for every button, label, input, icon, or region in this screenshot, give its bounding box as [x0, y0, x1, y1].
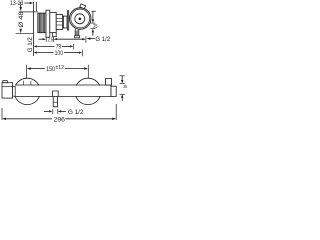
- front view outlet nut: [74, 36, 79, 38]
- dim 25 tick mid1: [90, 22, 95, 24]
- dim 25 text: [93, 24, 97, 30]
- svg-text:±12: ±12: [56, 65, 65, 71]
- label G 1/2 top arrow: [86, 37, 90, 39]
- dim 296 ext line left: [1, 108, 3, 120]
- dim G 1/2 bottom text: [68, 109, 84, 116]
- plan view bar bottom line: [15, 95, 111, 97]
- arrow for 13-23 pointing right: [24, 2, 29, 4]
- extension line second short: [35, 2, 37, 11]
- plan view knob: [2, 83, 13, 98]
- side view nut flat line 3: [56, 24, 62, 26]
- front view rim ring: [71, 9, 90, 28]
- dim G 1/2 bottom bar right: [57, 109, 59, 114]
- dim 79 text: [56, 44, 62, 51]
- svg-text:100: 100: [55, 50, 64, 57]
- front view top tab: [80, 4, 86, 9]
- front view outer circle: [69, 8, 91, 30]
- dim O48 arrow down upper: [20, 7, 22, 11]
- dim 25 right tick top: [120, 75, 125, 77]
- plan view right top knob: [106, 79, 112, 86]
- dim row1 long line: [57, 38, 85, 40]
- dim 25 tick mid2: [90, 28, 95, 30]
- dim 150 ext bar left: [26, 65, 28, 79]
- plan view right escutcheon circle: [75, 78, 101, 104]
- dim 25 top tick upper: [91, 10, 96, 12]
- dim 25 right tick bottom: [120, 93, 125, 95]
- label G 1/2 top text: [95, 36, 110, 43]
- dim 150 text with tolerance: [46, 65, 64, 73]
- dim O48 bottom extension line: [16, 33, 34, 35]
- svg-text:13-23: 13-23: [10, 0, 24, 7]
- plan view outlet junction: [53, 91, 59, 96]
- dim 2.5 bar right: [53, 37, 55, 42]
- dim 79 arrow left: [34, 45, 37, 47]
- side view outlet elbow: [53, 33, 57, 37]
- dim 25 arrow down: [92, 19, 94, 23]
- dim 25 shaft lower: [92, 32, 94, 36]
- plan view outlet stub step: [53, 101, 57, 103]
- svg-text:296: 296: [54, 116, 66, 123]
- plan view end cap: [111, 86, 116, 96]
- dim 79 bar right: [72, 44, 74, 50]
- dim 150 arrow right: [84, 67, 88, 69]
- svg-text:25: 25: [123, 84, 127, 89]
- dim O48 arrow down lower: [20, 29, 22, 33]
- dim 25 right text: [123, 84, 127, 89]
- plan view bar end line: [110, 85, 112, 97]
- svg-text:2.5: 2.5: [48, 37, 53, 43]
- dim 2.5 arrow right: [39, 38, 44, 40]
- plan view bar top line: [15, 84, 111, 86]
- plan view bar mask: [13, 85, 111, 96]
- dim 25 right arrow up: [121, 94, 123, 97]
- dim 25 arrow up: [92, 29, 94, 33]
- front view center dot: [79, 18, 82, 21]
- dim 150 arrow left: [27, 67, 31, 69]
- svg-text:G 1/2: G 1/2: [95, 36, 110, 43]
- dim G 1/2 bottom arrow left: [58, 110, 61, 112]
- dim row1 arrow right: [82, 38, 85, 40]
- dim 100 arrow left: [34, 52, 37, 54]
- side view escutcheon plate: [67, 11, 68, 30]
- plan view outlet stub: [53, 96, 57, 106]
- dim 296 text: [54, 116, 66, 123]
- dim 2.5 text: [48, 37, 53, 43]
- dim label 13-23: [10, 0, 24, 7]
- side view wall collar: [63, 16, 67, 28]
- dim 25 right shaft top: [121, 76, 123, 80]
- extension line left long: [33, 2, 35, 56]
- dim O48 text vertical: [19, 11, 25, 28]
- dim O48 top extension line: [19, 11, 38, 13]
- dim 79 arrow right: [70, 45, 73, 47]
- plan view knob tab: [3, 81, 8, 83]
- plan view knob inner line: [2, 86, 13, 88]
- side view knurled knob: [38, 13, 46, 33]
- side view union nut: [56, 15, 62, 30]
- dim 2.5 arrow left: [54, 38, 57, 40]
- dim 296 ext line right: [115, 104, 117, 120]
- dim G 1/2 bottom bar left: [52, 109, 54, 114]
- dim 100 text: [55, 50, 64, 57]
- dim 150 ext bar right: [87, 65, 89, 78]
- side view handle disc: [46, 10, 50, 37]
- plan view knob neck: [13, 86, 16, 96]
- svg-text:G 1/2: G 1/2: [68, 109, 84, 116]
- dim 2.5 bar left: [45, 37, 47, 42]
- front view outlet below: [75, 29, 79, 36]
- dim 296 arrow left: [2, 118, 6, 120]
- dim 25 right arrow down: [121, 80, 123, 83]
- dim 25 shaft upper: [92, 11, 94, 20]
- label G 1/2 vertical text: [28, 37, 34, 53]
- dim G 1/2 bottom arrow right: [44, 110, 49, 112]
- dim O48 shaft top: [20, 2, 22, 7]
- front view inner circle: [75, 14, 85, 24]
- dim 25 right shaft bottom: [121, 98, 123, 101]
- label G 1/2 top bar: [85, 36, 87, 43]
- side view nut flat line 1: [56, 17, 62, 19]
- dim 100 arrow right: [79, 52, 82, 54]
- dim 100 bar right: [81, 50, 83, 57]
- dim 296 arrow right: [112, 118, 116, 120]
- svg-text:G 1/2: G 1/2: [28, 37, 34, 53]
- svg-text:150: 150: [46, 66, 55, 73]
- plan view left escutcheon circle: [14, 78, 40, 104]
- dim 25 right tick mid: [120, 83, 125, 85]
- svg-text:Ø 48: Ø 48: [19, 11, 25, 28]
- side view body: [50, 13, 56, 33]
- side view nut flat line 2: [56, 21, 62, 23]
- plan view left union ticks: [22, 81, 24, 85]
